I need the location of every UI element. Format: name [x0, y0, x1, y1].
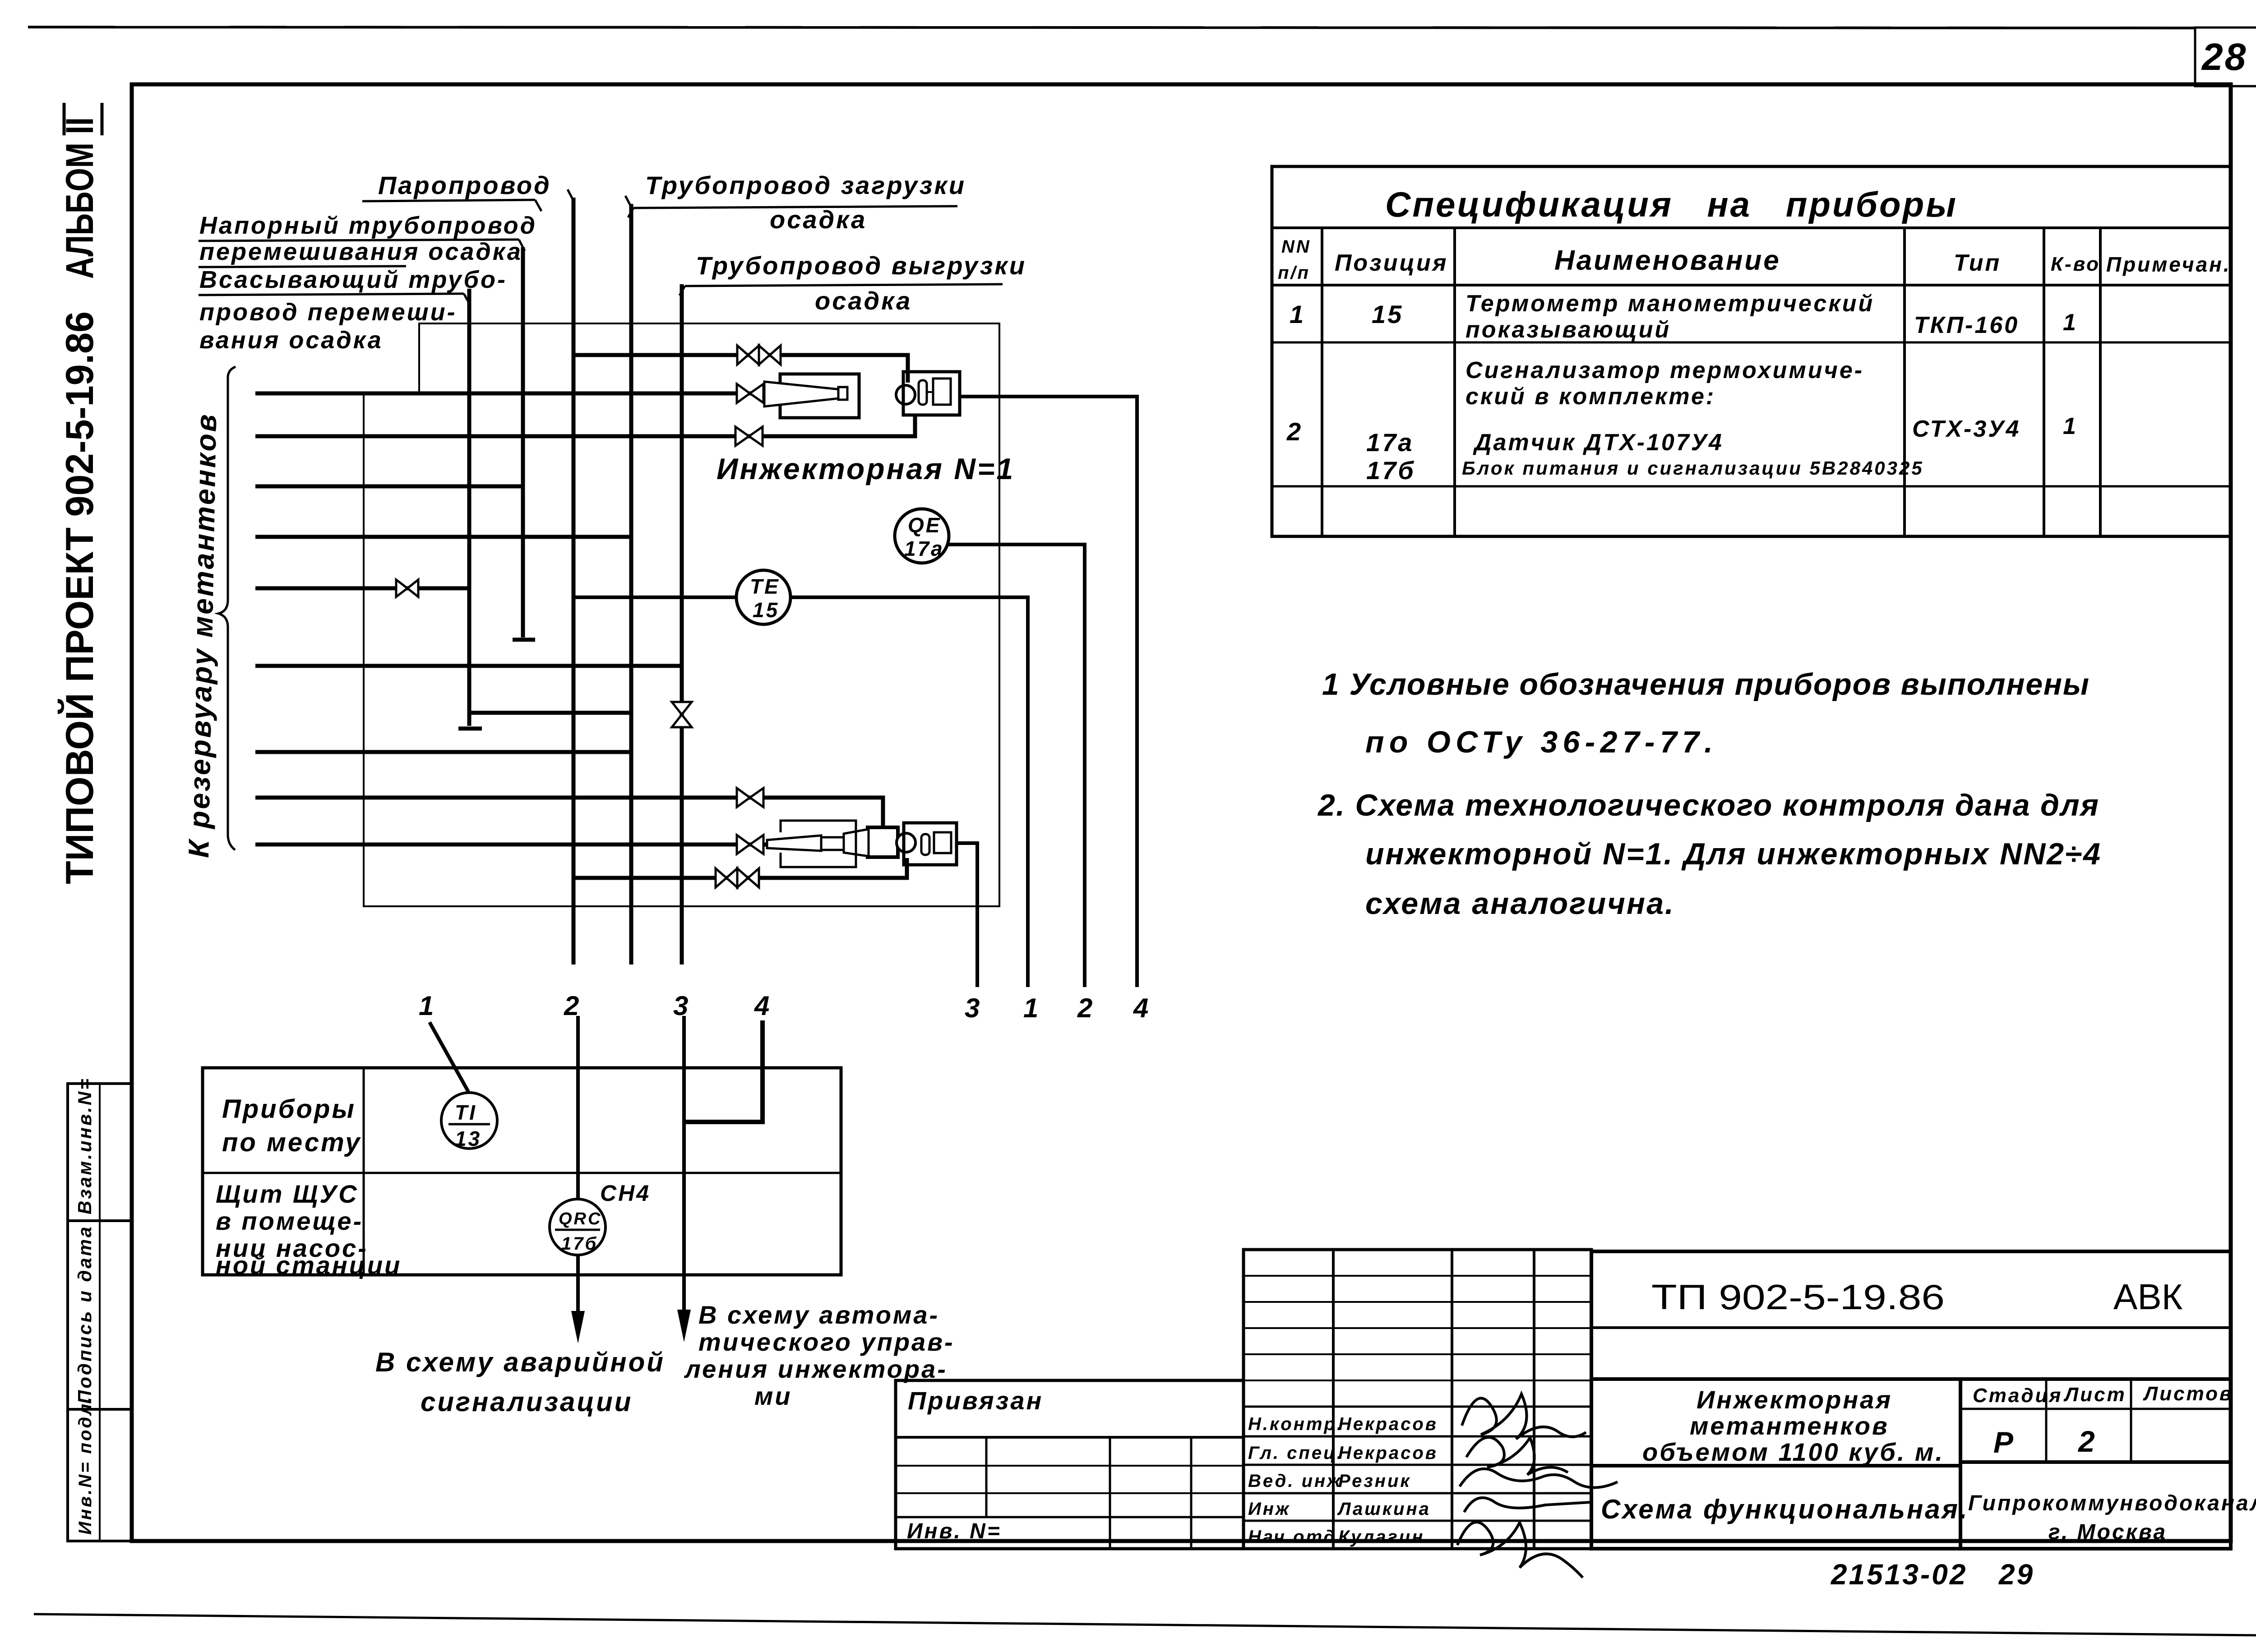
pipe riser Паропровод (V1271): [568, 189, 573, 964]
svg-text:Всасывающий трубо-: Всасывающий трубо-: [199, 266, 507, 293]
svg-text:NN: NN: [1281, 237, 1311, 257]
svg-text:17а: 17а: [904, 537, 944, 560]
svg-text:перемешивания осадка: перемешивания осадка: [199, 238, 522, 265]
svg-text:Р: Р: [1993, 1426, 2015, 1459]
svg-text:по месту: по месту: [222, 1128, 361, 1157]
svg-text:17а: 17а: [1366, 428, 1414, 457]
injector 1 steam branch: [573, 355, 908, 383]
svg-text:Вед. инж: Вед. инж: [1248, 1471, 1342, 1491]
cable node 3 to control arrow: [677, 1016, 691, 1342]
svg-text:1: 1: [419, 991, 435, 1021]
svg-text:15: 15: [753, 598, 779, 622]
injector 1 sensor box: [903, 372, 960, 415]
label Инжекторная №1: [717, 452, 1015, 485]
svg-text:осадка: осадка: [770, 205, 867, 234]
svg-text:Листов: Листов: [2143, 1383, 2233, 1405]
svg-text:Резник: Резник: [1338, 1471, 1411, 1491]
svg-text:п/п: п/п: [1278, 263, 1310, 283]
pipe riser Выгрузка (V1511): [680, 284, 684, 964]
label Приборы по месту: [222, 1094, 361, 1157]
valve on H11: [737, 835, 763, 854]
label К резервуару метантенков (rotated): [182, 412, 222, 858]
pipe H12 injector 2 steam: [573, 858, 907, 878]
title block main frame: [1591, 1251, 2231, 1549]
cable node 2 to QRC and alarm arrow: [571, 1016, 585, 1343]
cable node 4 jog to node 3 line: [684, 1020, 763, 1122]
label Напорный трубопровод перемешивания осадка: [199, 212, 537, 267]
pipe H4: [255, 535, 631, 539]
valve on H10: [737, 788, 763, 807]
brace to метантенки: [218, 367, 236, 850]
pipe H9: [255, 750, 631, 754]
injector 2 pump circle: [897, 833, 915, 852]
document number 21513-02 29: [1831, 1558, 2034, 1591]
node labels right row: [965, 993, 1150, 1023]
pipe riser Напорный (V1159): [513, 247, 535, 640]
svg-text:Схема функциональная.: Схема функциональная.: [1601, 1494, 1969, 1524]
svg-text:показывающий: показывающий: [1465, 317, 1671, 343]
svg-text:АЛЬБОМ II: АЛЬБОМ II: [58, 117, 102, 279]
spec table title: [1385, 185, 1958, 224]
svg-text:CH4: CH4: [600, 1181, 651, 1206]
svg-text:инжекторной N=1. Для инжектор: инжекторной N=1. Для инжекторных NN2÷4: [1365, 837, 2102, 871]
svg-text:QRC: QRC: [559, 1209, 602, 1228]
inner room boundary (Инжекторная): [364, 323, 999, 906]
svg-text:Трубопровод загрузки: Трубопровод загрузки: [645, 171, 966, 199]
svg-text:1: 1: [1290, 300, 1305, 328]
label CH4: [600, 1181, 651, 1206]
svg-text:ский в комплекте:: ский в комплекте:: [1465, 383, 1715, 410]
instrument QE 17а: [895, 509, 949, 563]
label Трубопровод выгрузки осадка: [680, 251, 1026, 315]
note 1: [1322, 667, 2091, 759]
svg-text:1: 1: [1023, 993, 1040, 1023]
instrument QRC 17б: [550, 1199, 606, 1255]
label Паропровод: [362, 171, 551, 211]
svg-text:Инв.N= подл.: Инв.N= подл.: [75, 1395, 95, 1535]
svg-text:Наименование: Наименование: [1554, 245, 1781, 276]
pipe H8 short: [469, 711, 631, 715]
svg-text:Гипрокоммунводоканал: Гипрокоммунводоканал: [1968, 1491, 2256, 1515]
svg-text:Спецификация на приборы: Спецификация на приборы: [1385, 185, 1958, 224]
svg-text:Приборы: Приборы: [222, 1094, 356, 1124]
valve on H5: [396, 580, 418, 597]
svg-text:2: 2: [1077, 993, 1094, 1023]
svg-text:осадка: осадка: [815, 286, 912, 315]
svg-text:метантенков: метантенков: [1690, 1412, 1889, 1440]
svg-text:сигнализации: сигнализации: [421, 1387, 633, 1417]
svg-text:13: 13: [455, 1127, 481, 1150]
svg-text:Инж: Инж: [1248, 1499, 1290, 1519]
label Трубопровод загрузки осадка: [628, 171, 966, 234]
svg-text:Привязан: Привязан: [908, 1386, 1043, 1415]
svg-text:СТХ-3У4: СТХ-3У4: [1912, 416, 2020, 442]
instrument TE 15: [736, 570, 791, 624]
injector 1 body box: [780, 374, 859, 418]
svg-text:Некрасов: Некрасов: [1338, 1414, 1438, 1434]
pipe H2 (injector 1 drain): [255, 415, 915, 436]
svg-text:Подпись и дата: Подпись и дата: [74, 1225, 95, 1404]
spec row 1: [1290, 291, 2078, 343]
svg-text:QE: QE: [908, 513, 941, 537]
svg-text:ТКП-160: ТКП-160: [1914, 312, 2019, 338]
hourglass valve on V1511: [672, 702, 692, 727]
spec header Позиция: [1335, 250, 1448, 276]
svg-text:Тип: Тип: [1954, 250, 2001, 276]
cable from QE to point 2: [948, 545, 1085, 987]
instrument TI 13: [441, 1093, 497, 1150]
svg-text:схема аналогична.: схема аналогична.: [1365, 886, 1675, 921]
spec header Тип: [1954, 250, 2001, 276]
svg-text:17б: 17б: [561, 1234, 598, 1254]
label Всасывающий трубопровод перемешивания осадка: [199, 266, 507, 354]
valve on H2: [735, 427, 763, 446]
title text ТП 902-5-19.86: [1651, 1277, 1945, 1317]
pipe/cable through TE: [573, 597, 1028, 987]
svg-text:ной станции: ной станции: [216, 1251, 402, 1279]
object name: [1642, 1385, 1944, 1466]
svg-text:Стадия: Стадия: [1973, 1384, 2062, 1407]
top scan edge line: [28, 27, 2195, 28]
svg-text:Гл. спец.: Гл. спец.: [1248, 1443, 1344, 1463]
svg-text:Блок питания и сигнализации 5В: Блок питания и сигнализации 5В2840325: [1462, 457, 1924, 479]
svg-text:ТП 902-5-19.86: ТП 902-5-19.86: [1651, 1277, 1945, 1317]
location table (Приборы по месту / Щит ЩУС): [203, 1068, 841, 1275]
svg-text:Примечан.: Примечан.: [2106, 253, 2231, 276]
stamp label Инв.№ подл.: [75, 1395, 95, 1535]
organization name: [1968, 1491, 2256, 1544]
svg-text:1 Условные обозначения прибо: 1 Условные обозначения приборов выполнен…: [1322, 667, 2091, 701]
link table Привязан: [896, 1380, 1244, 1549]
spec header Наименование: [1554, 245, 1781, 276]
svg-text:Напорный трубопровод: Напорный трубопровод: [199, 212, 537, 239]
svg-text:Лист: Лист: [2063, 1384, 2127, 1406]
injector 2 pump box: [868, 827, 898, 857]
left margin stamp column: [68, 1084, 132, 1541]
label Щит ЩУС в помещении насосной станции: [216, 1180, 402, 1279]
spec header Примечан.: [2106, 253, 2231, 276]
svg-text:К-во: К-во: [2051, 253, 2100, 275]
signatures squiggles: [1457, 1394, 1618, 1578]
svg-text:4: 4: [754, 991, 771, 1021]
pipe H3: [255, 485, 523, 489]
specification table frame: [1272, 166, 2231, 536]
note 2: [1317, 788, 2102, 921]
svg-text:Инв. N=: Инв. N=: [907, 1519, 1002, 1543]
svg-text:В схему аварийной: В схему аварийной: [375, 1347, 665, 1377]
svg-text:Трубопровод выгрузки: Трубопровод выгрузки: [696, 251, 1026, 280]
svg-text:21513-02: 21513-02: [1831, 1558, 1967, 1591]
svg-text:г. Москва: г. Москва: [2048, 1520, 2167, 1544]
sheet name Схема функциональная: [1601, 1494, 1969, 1524]
svg-text:АВК: АВК: [2113, 1277, 2183, 1317]
injector 2 outer box: [781, 821, 856, 867]
svg-text:объемом 1100 куб. м.: объемом 1100 куб. м.: [1642, 1438, 1944, 1466]
svg-text:Термометр манометрический: Термометр манометрический: [1465, 291, 1874, 317]
svg-text:Кулагин: Кулагин: [1338, 1527, 1424, 1547]
svg-text:Некрасов: Некрасов: [1338, 1443, 1438, 1463]
pipe H5: [255, 586, 469, 591]
svg-text:Инжекторная: Инжекторная: [1697, 1385, 1892, 1414]
vertical title: ТИПОВОЙ ПРОЕКТ 902-5-19.86: [58, 311, 102, 884]
svg-text:Нач.отд: Нач.отд: [1248, 1527, 1336, 1547]
signature roles and names: [1248, 1414, 1438, 1547]
svg-text:2: 2: [2077, 1425, 2097, 1458]
svg-text:ТИПОВОЙ ПРОЕКТ 902-5-19.86: ТИПОВОЙ ПРОЕКТ 902-5-19.86: [58, 311, 102, 884]
svg-text:15: 15: [1372, 300, 1403, 328]
valve on H1: [737, 384, 763, 403]
svg-text:TE: TE: [750, 575, 780, 598]
svg-text:29: 29: [1998, 1558, 2034, 1591]
svg-text:3: 3: [965, 993, 981, 1023]
pipe H11 injector 2 suction: [255, 843, 767, 847]
svg-text:Щит ЩУС: Щит ЩУС: [216, 1180, 359, 1208]
injector 2 sensor box: [904, 823, 957, 865]
stage table: [1960, 1379, 2233, 1462]
pipe H1 to injector 1 suction: [255, 392, 767, 396]
svg-text:1: 1: [2063, 413, 2078, 439]
double valve on H12: [716, 868, 759, 887]
pipe H7: [255, 664, 682, 668]
spec row 2: [1286, 357, 2078, 485]
svg-text:Н.контр.: Н.контр.: [1248, 1414, 1344, 1434]
cable injector 1 sensor to point 4: [960, 397, 1137, 987]
svg-text:ми: ми: [754, 1382, 792, 1410]
pipe H10 to injector 2 pump: [255, 798, 883, 828]
bottom scan edge line: [34, 1614, 2256, 1635]
vertical title: АЛЬБОМ II: [58, 103, 102, 279]
signature table: [1244, 1250, 1591, 1549]
title text АВК: [2113, 1277, 2183, 1317]
svg-text:4: 4: [1133, 993, 1150, 1023]
svg-text:В схему автома-: В схему автома-: [698, 1301, 939, 1329]
svg-text:в помеще-: в помеще-: [216, 1207, 363, 1235]
injector 1 pump circle: [896, 385, 915, 404]
cable injector 2 sensor to point 3: [957, 843, 977, 987]
leader from node 1 to TI: [430, 1022, 468, 1092]
injector 1 cone: [764, 382, 847, 406]
svg-text:Паропровод: Паропровод: [378, 171, 551, 199]
double valve on injector 1 steam: [737, 346, 781, 365]
label В схему аварийной сигнализации: [375, 1347, 665, 1417]
injector 2 cone: [767, 829, 869, 856]
svg-text:Сигнализатор термохимиче-: Сигнализатор термохимиче-: [1465, 357, 1864, 383]
svg-text:провод перемеши-: провод перемеши-: [199, 299, 457, 326]
svg-text:17б: 17б: [1366, 456, 1415, 485]
svg-text:28: 28: [2201, 36, 2247, 78]
svg-text:Взам.инв.N=: Взам.инв.N=: [74, 1077, 95, 1214]
svg-text:2: 2: [1286, 417, 1303, 446]
svg-text:TI: TI: [455, 1101, 477, 1124]
svg-text:Позиция: Позиция: [1335, 250, 1448, 276]
sheet number box 28: [2195, 28, 2256, 86]
svg-text:вания осадка: вания осадка: [199, 327, 383, 354]
svg-text:Датчик ДТХ-107У4: Датчик ДТХ-107У4: [1473, 429, 1724, 456]
svg-text:3: 3: [673, 991, 690, 1021]
svg-text:Инжекторная N=1: Инжекторная N=1: [717, 452, 1015, 485]
svg-text:Лашкина: Лашкина: [1337, 1499, 1431, 1519]
spec header NN п/п: [1278, 237, 1311, 283]
svg-text:2. Схема технологического конт: 2. Схема технологического контроля дана …: [1317, 788, 2100, 822]
stamp label Подпись и дата: [74, 1225, 95, 1404]
spec header К-во: [2051, 253, 2100, 275]
label В схему автоматического управления инжекторами: [684, 1301, 955, 1410]
svg-text:1: 1: [2063, 309, 2078, 336]
stamp label Взам.инв.№: [74, 1077, 95, 1214]
node labels left row: [419, 991, 771, 1021]
svg-text:тического управ-: тического управ-: [698, 1328, 955, 1356]
pipe riser Загрузка (V1399): [625, 196, 631, 964]
pipe riser Всасывающий (V1040): [458, 289, 482, 729]
